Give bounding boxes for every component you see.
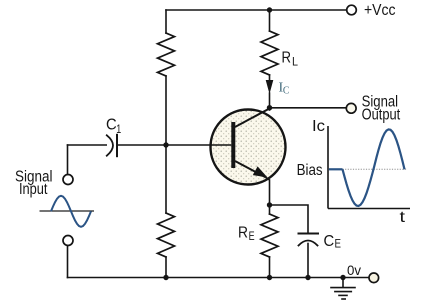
svg-text:Input: Input <box>19 181 48 198</box>
svg-text:C: C <box>324 233 335 250</box>
svg-text:E: E <box>335 238 342 250</box>
svg-text:E: E <box>249 231 255 243</box>
svg-text:1: 1 <box>116 124 121 136</box>
svg-text:0v: 0v <box>347 262 361 278</box>
svg-text:+Vcc: +Vcc <box>364 2 396 19</box>
svg-text:C: C <box>106 117 117 134</box>
svg-text:R: R <box>282 49 292 66</box>
svg-text:Bias: Bias <box>297 162 323 179</box>
svg-text:L: L <box>292 57 299 69</box>
svg-text:C: C <box>283 84 290 96</box>
svg-text:t: t <box>400 209 406 226</box>
svg-text:Ic: Ic <box>312 118 325 135</box>
svg-text:R: R <box>238 225 248 242</box>
svg-text:Output: Output <box>362 107 401 124</box>
